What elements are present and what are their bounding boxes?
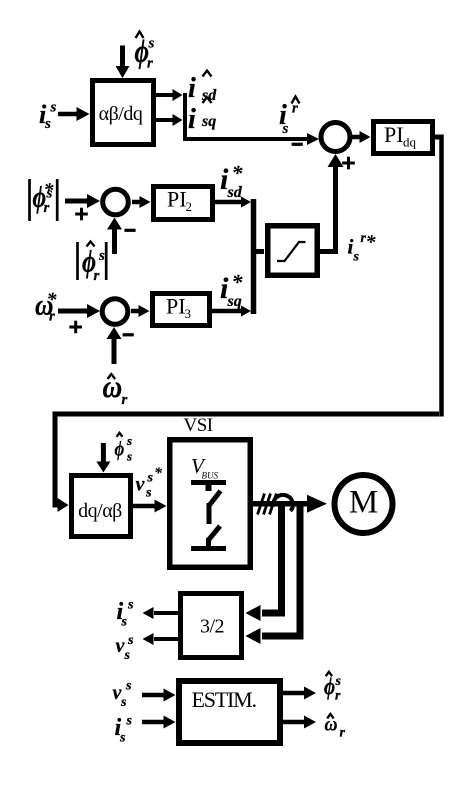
symbol: bottom rail	[191, 546, 226, 551]
svg-text:v: v	[136, 474, 146, 496]
wire: current measurement tap down to 3/2 block	[262, 506, 282, 613]
svg-text:s: s	[126, 714, 133, 729]
svg-text:*: *	[232, 161, 244, 186]
wire: i_s^s arrow into alpha-beta/dq block	[58, 112, 78, 117]
wire: v_s^s output arrow from 3/2 (left)	[154, 637, 178, 641]
block: 3/2 three-phase to two-phase transform	[181, 594, 242, 658]
wire: flux estimate feedback arrow (bottom) into S2	[112, 228, 117, 254]
svg-text:r: r	[94, 268, 100, 284]
wire: phi_r^s estimate output arrow from ESTIM	[283, 691, 305, 696]
svg-text:αβ/dq: αβ/dq	[99, 103, 143, 125]
symbol: upper switch blade	[210, 491, 221, 505]
svg-text:r: r	[147, 56, 153, 72]
svg-text:s: s	[126, 433, 132, 448]
label: flux estimate magnitude |phi_r^s (hat)|	[76, 242, 79, 280]
symbol: three-phase slash marks	[258, 494, 265, 515]
block: VSI voltage source inverter	[170, 440, 251, 568]
svg-text:dq/αβ: dq/αβ	[78, 500, 122, 522]
svg-text:PI: PI	[167, 187, 187, 212]
svg-text:s: s	[126, 449, 132, 464]
summing junction S3 (speed error)	[102, 299, 128, 325]
wire: i_sd output arrow from alpha-beta/dq	[156, 93, 174, 97]
svg-text:ESTIM.: ESTIM.	[192, 687, 257, 712]
block: PI_dq current controller	[374, 122, 433, 154]
symbol: upper switch wire	[207, 503, 212, 524]
svg-text:3/2: 3/2	[200, 616, 224, 638]
svg-text:*: *	[154, 465, 163, 482]
block: alpha-beta/dq transform	[93, 81, 154, 145]
svg-text:i: i	[188, 73, 196, 104]
block: PI_2 flux controller	[154, 187, 213, 220]
svg-text:PI: PI	[166, 294, 186, 319]
svg-text:s: s	[120, 695, 127, 710]
svg-text:VSI: VSI	[184, 415, 213, 436]
symbol: lower switch blade	[209, 526, 221, 540]
svg-text:r: r	[292, 101, 298, 117]
wire: omega_r estimate output arrow from ESTIM	[283, 720, 305, 725]
svg-text:*: *	[232, 270, 244, 295]
svg-text:s: s	[335, 674, 342, 689]
machine: motor M circle	[335, 475, 393, 533]
symbol: saturation curve inside limiter	[277, 242, 306, 261]
symbol: measurement loop arc over phase line	[273, 495, 293, 511]
wire: S3 output to PI_3	[131, 309, 141, 314]
summing junction S1 (current error)	[321, 123, 350, 152]
svg-text:s: s	[125, 679, 132, 694]
svg-text:2: 2	[186, 199, 193, 214]
svg-text:s: s	[50, 100, 57, 116]
wire: three-phase output line VSI to motor	[253, 501, 308, 507]
svg-text:PI: PI	[384, 122, 404, 147]
svg-text:r: r	[49, 309, 55, 325]
svg-text:s: s	[145, 486, 152, 501]
label: minus sign at summing junction S3	[123, 333, 134, 336]
label: minus sign at summing junction S1	[292, 143, 303, 146]
svg-text:s: s	[127, 633, 134, 648]
wire: vertical joiner collecting i_sd / i_sq	[183, 93, 187, 141]
wire: S1 output to PI_dq controller	[351, 135, 361, 140]
svg-text:r: r	[335, 689, 341, 704]
wire: bus to saturation block	[253, 249, 264, 254]
wire: i_sq output arrow from alpha-beta/dq	[156, 118, 174, 122]
svg-text:s: s	[121, 615, 128, 630]
svg-text:s: s	[127, 598, 134, 613]
svg-text:r: r	[340, 726, 346, 741]
svg-text:s: s	[119, 731, 126, 746]
symbol: dc bus top rail	[191, 480, 226, 485]
wire: speed estimate feedback arrow (bottom) into S3	[112, 337, 117, 364]
svg-text:r: r	[44, 200, 50, 216]
svg-text:i: i	[188, 104, 196, 135]
block: saturation limiter	[268, 226, 318, 276]
svg-text:s: s	[98, 248, 105, 264]
wire: i_s^s arrow into ESTIM block	[142, 720, 164, 725]
wire: flux reference arrow into summing junction S2	[65, 199, 88, 204]
svg-text:*: *	[366, 232, 377, 254]
svg-text:BUS: BUS	[202, 471, 219, 481]
label: plus sign at summing junction S3	[69, 326, 82, 329]
label: plus sign at summing junction S2	[75, 213, 88, 216]
symbol: lower switch stub	[206, 538, 211, 548]
wire: current reference bus (vertical)	[251, 199, 257, 314]
svg-text:s: s	[148, 36, 155, 52]
svg-text:ω: ω	[325, 714, 338, 736]
summing junction S2 (flux error)	[103, 189, 129, 215]
wire: v_s^s arrow into ESTIM block	[142, 693, 164, 698]
svg-text:s: s	[282, 121, 289, 137]
wire: measured current line into summing junction S1	[183, 137, 309, 141]
svg-text:s: s	[124, 648, 131, 663]
wire: speed reference arrow into summing junction S3	[58, 309, 88, 314]
svg-text:s: s	[353, 250, 360, 265]
label: flux reference magnitude |phi_r*s|	[28, 179, 31, 221]
wire: i_s^s output arrow from 3/2 (left)	[154, 611, 178, 615]
wire: PI_dq output feedback path down-across-down into dq/alpha-beta	[435, 135, 440, 140]
svg-text:sq: sq	[227, 293, 242, 310]
svg-text:ϕ: ϕ	[324, 674, 335, 701]
wire: saturation output up into summing junction S1 (plus input)	[320, 249, 333, 254]
svg-text:sq: sq	[201, 113, 216, 130]
block: PI_3 speed controller	[153, 294, 210, 326]
wire: voltage reference v_s^s* into VSI	[133, 504, 156, 509]
svg-text:r: r	[122, 392, 128, 408]
svg-text:dq: dq	[403, 135, 417, 150]
svg-text:M: M	[349, 485, 378, 521]
symbol: top rail stub	[206, 482, 212, 491]
label: plus sign at summing junction S1	[342, 162, 355, 165]
svg-text:sd: sd	[227, 184, 243, 201]
block: dq/alpha-beta inverse transform	[72, 476, 131, 537]
block: ESTIM flux and speed estimator	[179, 681, 280, 743]
svg-text:3: 3	[185, 306, 192, 321]
label: minus sign at summing junction S2	[124, 229, 135, 232]
wire: stator flux estimate arrow into dq/alpha-beta block	[101, 443, 106, 462]
wire: PI_2 output i_sd* to current reference bus	[215, 200, 243, 205]
wire: S2 output to PI_2	[132, 200, 142, 205]
wire: rotor flux estimate arrow into alpha-beta/dq block (top)	[120, 46, 125, 68]
svg-text:ϕ: ϕ	[115, 438, 125, 461]
wire: voltage measurement tap down to 3/2 block	[262, 506, 300, 636]
svg-text:s: s	[44, 116, 51, 132]
svg-text:s: s	[147, 471, 154, 486]
wire: PI_3 output i_sq* to current reference bus	[212, 309, 243, 314]
